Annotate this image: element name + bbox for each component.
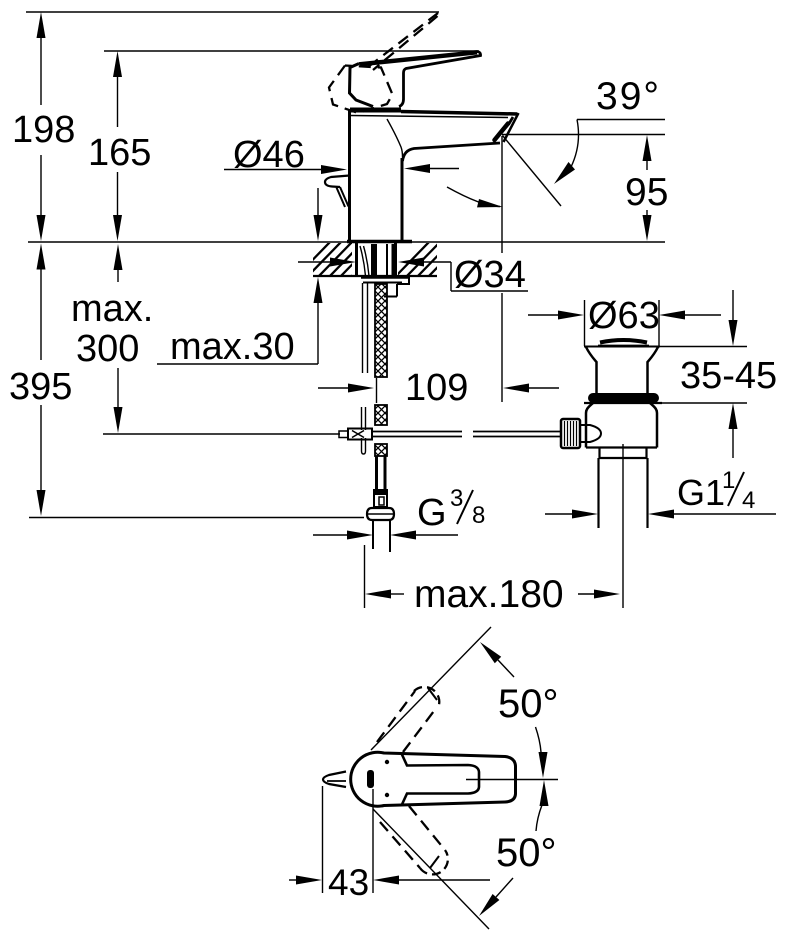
dimension 165 <box>88 51 151 241</box>
counter cross-section hatching <box>296 242 462 277</box>
water flow arc <box>447 187 500 207</box>
svg-text:8: 8 <box>472 502 485 529</box>
svg-text:165: 165 <box>88 132 151 174</box>
svg-text:max.180: max.180 <box>414 573 564 616</box>
svg-text:39°: 39° <box>596 75 661 118</box>
max.300 bottom reference line <box>103 433 340 435</box>
dashed handle rotated up 50 <box>377 687 439 752</box>
pop-up waste valve <box>584 340 660 393</box>
dimension 198 top reference line <box>26 11 439 13</box>
dimension max.300 <box>71 244 153 433</box>
horizontal pop-up rod <box>372 432 562 437</box>
handle lever raised (dashed) <box>329 13 438 113</box>
counter bottom line <box>313 275 437 277</box>
valve centerline <box>622 444 624 608</box>
upper 50 ray <box>371 627 491 750</box>
handle outline top view <box>351 752 516 806</box>
svg-text:50°: 50° <box>496 831 557 875</box>
dimension 43 <box>289 786 490 903</box>
counter hole walls <box>355 243 358 276</box>
tailpipe <box>597 458 599 528</box>
svg-text:300: 300 <box>76 328 139 370</box>
counter mounting surface line <box>28 241 665 243</box>
dimension 95 <box>625 135 668 241</box>
dimension 165 top reference line <box>104 50 479 52</box>
spout <box>351 112 519 162</box>
valve body <box>586 403 657 448</box>
svg-text:Ø34: Ø34 <box>454 254 526 296</box>
G3/8 pipe <box>372 520 374 549</box>
dimension Ø63 <box>528 295 721 346</box>
dimension 35-45 <box>653 290 777 458</box>
svg-text:35-45: 35-45 <box>680 355 777 397</box>
svg-text:Ø63: Ø63 <box>588 295 660 337</box>
dimension 50 degrees lower <box>479 780 557 916</box>
svg-text:1: 1 <box>722 467 735 494</box>
svg-text:50°: 50° <box>498 682 559 726</box>
dimension Ø46 label and leader <box>224 134 459 176</box>
dimension Ø34 <box>298 254 528 296</box>
dimension 39 degrees <box>502 75 665 206</box>
dimension G1 1/4 <box>545 467 776 519</box>
hose end fitting <box>373 489 388 494</box>
pull rod curve in hole <box>360 246 366 276</box>
body to spout inner curve <box>387 119 403 157</box>
395 bottom reference line <box>29 517 364 519</box>
pivot mark <box>367 770 374 788</box>
dimension 109 <box>318 367 559 409</box>
knurled valve knob <box>561 419 601 448</box>
svg-text:max.30: max.30 <box>170 326 295 368</box>
faucet body column <box>347 110 412 242</box>
pop-up rod clamp <box>339 429 372 440</box>
pull rod segments at clamp <box>361 407 363 430</box>
svg-text:198: 198 <box>12 109 75 151</box>
slip nut <box>600 448 647 458</box>
junction dots <box>385 760 389 764</box>
dimension 198 <box>12 12 75 241</box>
svg-text:395: 395 <box>9 366 72 408</box>
G3/8 nut <box>367 508 394 520</box>
svg-text:max.: max. <box>71 288 153 330</box>
dimension 50 degrees upper <box>480 642 559 778</box>
dimension max.30 <box>157 188 323 368</box>
spout outlet extension line <box>501 136 503 253</box>
svg-text:4: 4 <box>742 487 755 514</box>
faucet flexible hose upper crosshatch section <box>375 284 387 377</box>
mounting washer under counter <box>361 278 409 297</box>
svg-text:G1: G1 <box>677 472 725 513</box>
flange line <box>584 402 662 404</box>
svg-text:43: 43 <box>328 862 369 903</box>
spout nub top view <box>323 772 346 788</box>
dimension 395 <box>9 244 72 517</box>
svg-text:G: G <box>417 492 447 534</box>
handle lever (solid position) <box>350 52 481 107</box>
O-ring <box>588 393 659 403</box>
svg-text:95: 95 <box>625 171 668 214</box>
faucet flexible hose middle crosshatch section <box>375 405 387 425</box>
pull rod tube below counter <box>362 283 364 373</box>
dashed handle rotated down 50 <box>380 806 448 874</box>
svg-text:3: 3 <box>450 485 463 512</box>
svg-text:109: 109 <box>405 367 468 409</box>
dimension G3/8 <box>313 485 485 540</box>
drain pull knob on body <box>325 176 350 208</box>
lower 50 ray <box>373 809 489 929</box>
dimension max.180 <box>365 545 621 616</box>
handle inner outline <box>402 754 480 806</box>
hose tube <box>375 456 378 490</box>
faucet flexible hose lower crosshatch section <box>375 444 387 456</box>
faucet shank tube in hole <box>371 244 377 276</box>
handle centerline <box>466 779 558 781</box>
